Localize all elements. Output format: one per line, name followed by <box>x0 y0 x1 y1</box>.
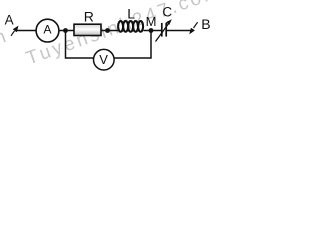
svg-text:Tuyensinh247.com: Tuyensinh247.com <box>24 0 217 70</box>
svg-text:B: B <box>201 16 210 32</box>
svg-text:M: M <box>146 14 157 29</box>
svg-text:L: L <box>127 5 135 21</box>
svg-text:C: C <box>162 5 172 20</box>
svg-text:A: A <box>43 22 52 36</box>
svg-text:V: V <box>99 52 108 67</box>
svg-text:A: A <box>5 12 14 27</box>
svg-text:R: R <box>84 8 94 24</box>
svg-text:m: m <box>0 25 11 51</box>
